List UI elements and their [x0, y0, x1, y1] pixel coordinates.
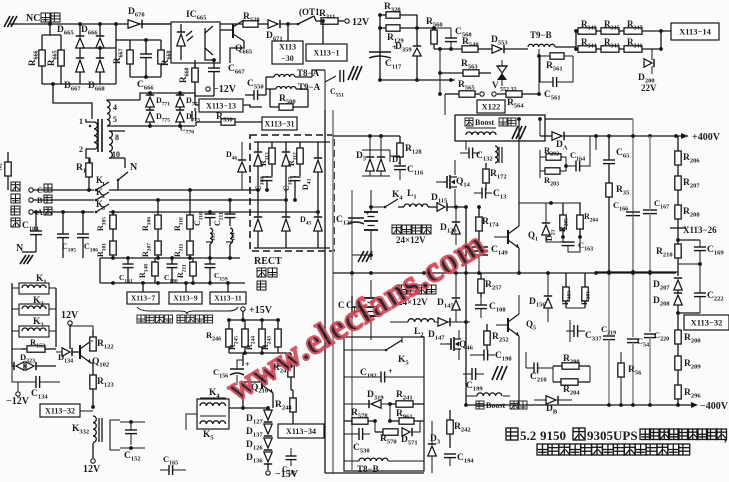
wire — [91, 363, 93, 375]
wire — [292, 420, 294, 428]
connector X113-11 — [210, 292, 246, 304]
node — [111, 210, 115, 214]
wire — [229, 352, 278, 354]
diode DA — [552, 132, 562, 140]
resistor R560 — [433, 28, 435, 30]
resistor R153 — [21, 348, 27, 350]
wire — [242, 353, 244, 366]
capacitor C159 — [209, 258, 211, 264]
capacitor C13 — [481, 188, 483, 199]
wire — [100, 282, 245, 284]
svg-text:T8−B: T8−B — [357, 464, 379, 474]
connector X113-31 — [262, 117, 297, 130]
diode D137 — [264, 424, 272, 434]
transistor Q210 — [261, 375, 263, 389]
wire — [99, 258, 101, 283]
capacitor C551 — [339, 70, 341, 82]
svg-text:−12V: −12V — [213, 84, 237, 95]
resistor R111 — [189, 235, 191, 241]
wire — [194, 93, 196, 105]
wire — [33, 189, 94, 191]
svg-text:Boost: Boost — [486, 401, 505, 410]
resistor R349 — [576, 30, 578, 32]
svg-text:+400V: +400V — [692, 132, 721, 143]
svg-text:−30: −30 — [281, 54, 294, 63]
resistor R106 — [157, 200, 159, 215]
resistor R209 — [677, 370, 679, 385]
wire — [92, 443, 94, 458]
resistor R204 upper — [579, 203, 581, 215]
wire — [371, 206, 385, 208]
label mains input detect signal — [137, 315, 145, 323]
resistor R290 — [553, 365, 562, 367]
resistor R148 — [154, 258, 156, 262]
wire — [370, 252, 372, 260]
wire — [49, 287, 56, 289]
resistor R311 — [316, 20, 321, 22]
diode D126 — [264, 438, 272, 448]
svg-text:−12V: −12V — [6, 396, 30, 407]
capacitor C161 — [127, 258, 129, 264]
wire — [53, 84, 92, 119]
resistor R565 — [445, 93, 459, 95]
thyristor V552.32 — [497, 66, 507, 73]
capacitor C110 — [209, 212, 211, 214]
rectifier RECT box — [250, 135, 334, 251]
resistor R561 — [550, 53, 564, 59]
diode D771 — [146, 97, 154, 107]
capacitor C105 — [62, 212, 64, 234]
connector X122 — [477, 100, 505, 113]
wire — [79, 24, 81, 36]
capacitor C156 — [230, 368, 244, 370]
wire — [546, 241, 563, 243]
wire — [540, 156, 546, 158]
wire — [116, 39, 130, 41]
svg-text:24×12V: 24×12V — [396, 235, 426, 245]
wire — [195, 92, 214, 96]
resistor R344 — [578, 46, 596, 52]
capacitor C220 — [649, 272, 651, 332]
transistor Q1 — [507, 230, 509, 244]
diode D207 — [674, 280, 682, 290]
svg-text:5: 5 — [113, 115, 117, 124]
capacitor C211 — [229, 200, 231, 214]
capacitor C164 — [575, 161, 577, 172]
capacitor C550 — [253, 90, 255, 100]
capacitor C108 mid — [475, 304, 487, 306]
connector X113-9 — [169, 292, 202, 304]
diode D666 — [96, 38, 104, 48]
resistor R244 — [261, 320, 263, 329]
capacitor C198 — [483, 350, 485, 361]
inductor small choke — [495, 146, 498, 163]
svg-text:X113−13: X113−13 — [206, 101, 236, 110]
wire — [42, 24, 50, 35]
resistor R129 — [380, 27, 386, 29]
wire — [642, 30, 671, 32]
wire — [70, 326, 93, 330]
diode bridge top left — [254, 154, 262, 166]
capacitor C117 — [369, 51, 391, 53]
connector X113-32 right — [684, 315, 729, 330]
svg-text:T9−B: T9−B — [530, 30, 552, 40]
wire — [11, 283, 13, 366]
svg-text:X113−1: X113−1 — [314, 48, 340, 57]
wire — [678, 239, 700, 241]
resistor R564 — [506, 91, 522, 97]
diode D667 — [76, 60, 84, 72]
diode D665 — [76, 38, 84, 48]
svg-text:1: 1 — [79, 117, 83, 126]
resistor R660 — [194, 63, 196, 68]
resistor R210 — [675, 244, 681, 258]
diode D145 — [452, 300, 460, 310]
resistor R200 — [677, 344, 679, 356]
svg-text:4: 4 — [113, 103, 117, 112]
svg-text:X113−32: X113−32 — [691, 318, 723, 328]
connector X113-30 — [272, 41, 303, 64]
svg-text:X113−9: X113−9 — [173, 294, 198, 303]
wire — [324, 430, 325, 432]
capacitor C770 — [191, 111, 193, 121]
resistor R241 — [390, 403, 396, 405]
transformer secondary 4-5 — [107, 101, 110, 126]
connector X113-14 — [671, 23, 719, 40]
box outline — [344, 337, 424, 471]
svg-text:−400V: −400V — [700, 401, 729, 412]
inductor T9-A — [276, 87, 296, 89]
capacitor C132 — [468, 148, 470, 159]
label mains supply — [11, 182, 20, 191]
resistor R247 — [290, 353, 292, 363]
wire — [22, 251, 36, 253]
resistor R172 — [485, 163, 487, 169]
resistor R207 — [677, 190, 679, 205]
svg-text:12V: 12V — [61, 310, 79, 321]
svg-text:5.2: 5.2 — [520, 428, 536, 443]
svg-text:9150: 9150 — [540, 428, 566, 443]
resistor R203 — [545, 168, 560, 174]
capacitor C180 — [171, 258, 173, 264]
capacitor C194 — [444, 453, 456, 455]
capacitor C108 — [262, 176, 273, 178]
svg-text:22V: 22V — [641, 83, 657, 93]
diode D46 — [238, 162, 246, 172]
wire — [321, 19, 325, 23]
capacitor C530 — [358, 428, 360, 440]
svg-text:T9−A: T9−A — [298, 82, 321, 92]
label negative battery — [397, 285, 406, 294]
capacitor C222 — [699, 264, 701, 293]
capacitor C199 — [471, 368, 473, 380]
inductor T9-B — [528, 44, 555, 47]
capacitor C54 — [632, 272, 634, 337]
connector X113-32 — [40, 404, 80, 417]
wire — [286, 22, 290, 26]
wire — [380, 79, 455, 81]
resistor R112 — [299, 142, 301, 148]
svg-text:X113−34: X113−34 — [286, 427, 316, 436]
terminal B phase — [29, 198, 33, 202]
resistor R530 — [196, 121, 221, 123]
resistor R113 — [271, 142, 273, 148]
label positive battery — [392, 225, 401, 234]
wire — [140, 93, 195, 100]
svg-text:X113: X113 — [279, 43, 296, 52]
label rectifier bridge — [257, 268, 266, 277]
resistor R665 — [60, 35, 62, 50]
diode bridge bottom mid — [282, 219, 290, 231]
wire — [566, 307, 585, 309]
capacitor C134 — [35, 376, 37, 388]
transistor Q102 — [79, 345, 81, 359]
wire — [595, 136, 597, 150]
svg-text:X113−26: X113−26 — [683, 225, 717, 235]
terminal 12V — [338, 20, 344, 22]
resistor R123 — [92, 389, 94, 407]
capacitor C337 — [573, 325, 575, 337]
connector X113-1 — [306, 44, 347, 61]
diode D773 — [176, 112, 184, 122]
wire — [539, 119, 541, 136]
capacitor C185 — [286, 455, 297, 457]
resistor R528 — [258, 23, 268, 25]
wire — [86, 152, 90, 158]
wire — [596, 271, 678, 273]
capacitor C666 — [140, 53, 152, 55]
svg-text:9305UPS: 9305UPS — [587, 428, 638, 443]
wire — [324, 70, 326, 110]
capacitor C65 — [603, 159, 615, 161]
ground — [4, 16, 10, 27]
watermark — [220, 223, 493, 409]
wire — [254, 141, 330, 143]
capacitor C192 — [380, 372, 382, 383]
resistor R204 — [553, 381, 561, 383]
diode D208 — [674, 295, 682, 305]
wire — [642, 48, 661, 50]
caption line1 — [506, 428, 518, 440]
capacitor C169 — [699, 240, 701, 247]
transistor Q665 — [220, 29, 233, 31]
resistor R242 — [449, 410, 451, 420]
wire — [351, 190, 353, 470]
wire — [254, 247, 330, 249]
node — [91, 405, 95, 409]
diode D571 — [402, 428, 410, 436]
diode bridge bottom left — [254, 219, 262, 231]
svg-text:+15V: +15V — [249, 305, 273, 316]
connector X113-13 — [199, 99, 243, 112]
wire — [250, 189, 258, 191]
diode D136 — [264, 452, 272, 462]
terminal 12V bottom — [91, 459, 95, 463]
svg-text:8: 8 — [115, 133, 119, 142]
wire — [273, 365, 291, 367]
transformer primary winding — [94, 122, 97, 149]
terminal +15V — [241, 307, 245, 311]
diode D670 — [128, 20, 140, 28]
svg-text:+: + — [388, 367, 393, 376]
resistor R347 — [619, 30, 624, 32]
resistor R320 — [380, 14, 386, 16]
svg-text:12V: 12V — [352, 17, 370, 28]
wire — [465, 273, 467, 405]
wire — [444, 94, 446, 115]
svg-text:V: V — [492, 80, 499, 90]
resistor R211 — [192, 258, 194, 262]
capacitor C219 — [608, 272, 610, 334]
diode D128 — [452, 224, 460, 234]
wire — [242, 311, 244, 320]
resistor R343 — [596, 48, 601, 50]
wire — [333, 135, 400, 137]
capacitor C167 — [643, 209, 657, 211]
svg-text:12V: 12V — [83, 464, 101, 475]
wire — [243, 105, 262, 107]
resistor R208 — [677, 219, 679, 228]
wire rail mid — [333, 272, 676, 274]
resistor R257 — [480, 273, 482, 279]
terminal A phase — [29, 210, 33, 214]
capacitor C107 — [290, 176, 301, 178]
diode D775 — [146, 112, 154, 122]
resistor R961 — [390, 420, 399, 422]
terminal -15V — [267, 464, 269, 470]
svg-text:NC: NC — [26, 13, 40, 24]
resistor R345 — [596, 30, 601, 32]
wire — [545, 118, 633, 120]
diode bridge top mid — [282, 154, 290, 166]
wire — [14, 23, 171, 25]
wire — [519, 202, 581, 204]
switch K — [118, 172, 128, 180]
wire — [352, 254, 371, 256]
wire — [324, 110, 326, 473]
wire — [538, 49, 540, 94]
wire — [312, 70, 325, 77]
mosfet Q14 — [443, 181, 447, 183]
resistor R206 — [677, 136, 679, 151]
capacitor C210 — [533, 363, 535, 374]
wire — [332, 110, 334, 473]
resistor R540 — [462, 46, 478, 52]
wire — [229, 407, 268, 409]
resistor R252 — [486, 324, 488, 331]
wire — [100, 257, 240, 259]
svg-text:10: 10 — [112, 150, 120, 159]
svg-text:X113−32: X113−32 — [45, 406, 75, 415]
wire — [677, 313, 679, 330]
wire — [434, 48, 462, 50]
svg-text:Boost: Boost — [475, 118, 494, 127]
diode D668 — [96, 60, 104, 72]
diode D23 — [542, 225, 550, 235]
transformer secondary 8-10 — [109, 131, 112, 158]
diode D127 — [264, 410, 272, 420]
diode D553 — [492, 45, 502, 53]
wire — [149, 93, 151, 95]
inductor T8-B — [359, 458, 388, 461]
transformer hash — [492, 366, 498, 380]
resistor R245 — [244, 320, 246, 329]
capacitor C166 — [626, 211, 640, 213]
node A — [48, 22, 52, 26]
ground hash — [358, 251, 364, 262]
label -400V — [691, 402, 698, 408]
resistor R122 — [92, 330, 94, 337]
diode D671 — [268, 20, 278, 28]
wire — [265, 77, 267, 95]
capacitor C163 — [562, 241, 575, 243]
label +400V — [681, 133, 688, 139]
inductor L115 — [210, 228, 213, 244]
battery positive pack — [364, 211, 378, 213]
inductor Boost coil — [466, 132, 496, 135]
transformer T core — [97, 119, 99, 152]
resistor R668 — [160, 40, 162, 50]
svg-text:X113−11: X113−11 — [214, 294, 242, 303]
svg-text:X113−7: X113−7 — [131, 294, 156, 303]
svg-text:(OT1: (OT1 — [299, 7, 320, 17]
capacitor C561 — [552, 77, 554, 87]
wire — [80, 410, 93, 412]
resistor R174 — [478, 207, 480, 217]
resistor R182 — [7, 152, 9, 162]
wire — [42, 83, 116, 85]
resistor R201 — [584, 273, 586, 287]
wire — [142, 283, 144, 292]
inductor Boost box — [455, 115, 545, 141]
ground — [20, 255, 26, 264]
wire — [465, 207, 467, 273]
resistor R570 — [375, 431, 383, 433]
label Boost choke — [465, 118, 473, 126]
svg-text:,: , — [724, 430, 727, 444]
resistor R500 — [270, 106, 279, 108]
caption line2 — [537, 444, 548, 455]
resistor R205 — [562, 203, 564, 215]
diode D359 — [413, 48, 421, 56]
resistor R246 — [228, 320, 230, 329]
resistor R110 — [189, 190, 191, 215]
resistor R248 — [292, 390, 294, 398]
svg-text:X122: X122 — [482, 102, 501, 112]
resistor R103 — [565, 273, 567, 287]
connector X113-7 — [127, 292, 159, 304]
diode D156 — [544, 298, 552, 308]
capacitor C116 — [394, 165, 406, 167]
inductor negative boost choke — [477, 393, 502, 396]
wire — [205, 56, 214, 60]
resistor R202 — [546, 154, 561, 160]
diode D772 — [176, 97, 184, 107]
wire — [466, 404, 691, 406]
brace — [137, 307, 238, 314]
diode D3 — [428, 446, 436, 456]
resistor R346 — [619, 48, 624, 50]
diode D43 — [314, 160, 322, 172]
wire — [325, 472, 424, 474]
wire — [465, 141, 467, 150]
diode D200 — [651, 49, 653, 60]
svg-text:X113−14: X113−14 — [679, 27, 712, 37]
resistor R296 — [677, 399, 679, 405]
svg-text:X113−31: X113−31 — [265, 119, 295, 128]
terminal -12V — [17, 382, 19, 391]
capacitor C152 — [110, 420, 120, 450]
